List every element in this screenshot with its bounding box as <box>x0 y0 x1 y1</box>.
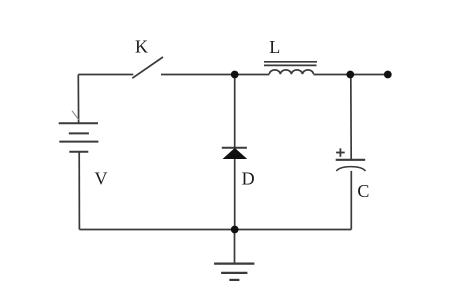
wire left vertical (battery top lead) <box>77 75 79 124</box>
wire ground lead <box>234 230 236 264</box>
wire diode branch upper <box>234 75 236 148</box>
capacitor plus sign <box>336 152 345 154</box>
wire capacitor branch upper <box>350 75 352 160</box>
svg-text:D: D <box>242 168 255 188</box>
node A junction dot <box>231 71 239 79</box>
bottom ground node junction dot <box>231 226 239 234</box>
battery V plate long top <box>59 122 98 124</box>
wire top-left horizontal <box>78 74 133 76</box>
svg-text:K: K <box>135 36 148 56</box>
wire node A to inductor <box>235 74 270 76</box>
wire switch to node A <box>161 74 235 76</box>
wire capacitor branch lower <box>350 171 352 230</box>
inductor L coil <box>269 70 313 74</box>
ground bar long <box>214 263 254 265</box>
svg-text:V: V <box>95 169 108 189</box>
diode D triangle <box>224 149 246 159</box>
battery V plate short upper <box>69 132 89 134</box>
wire battery lead kink <box>72 111 79 120</box>
wire bottom horizontal <box>79 229 351 231</box>
wire battery bottom lead <box>78 152 80 230</box>
svg-text:C: C <box>357 181 369 201</box>
inductor L core lines <box>264 61 317 63</box>
battery V plate short bottom <box>69 151 88 153</box>
wire diode branch lower <box>234 159 236 230</box>
output terminal dot <box>384 71 392 79</box>
ground bar short <box>229 279 239 281</box>
ground bar medium <box>221 272 247 274</box>
switch K blade <box>132 57 163 78</box>
wire node B to output terminal <box>350 74 388 76</box>
diode D cathode bar <box>222 147 247 149</box>
svg-text:L: L <box>269 37 280 57</box>
node B junction dot <box>346 71 354 79</box>
capacitor C curved plate <box>336 167 365 171</box>
battery V plate long lower <box>59 141 98 143</box>
capacitor C top plate <box>336 159 366 161</box>
wire inductor to node B <box>314 74 351 76</box>
